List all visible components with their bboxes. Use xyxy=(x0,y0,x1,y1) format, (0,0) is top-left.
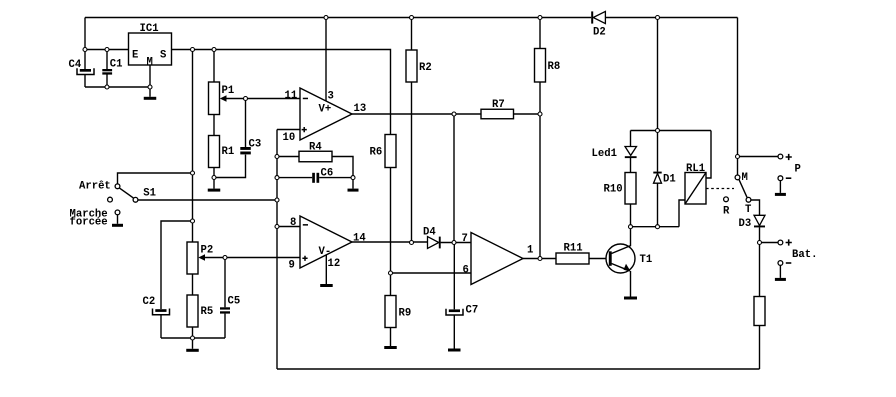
node: 13-row / feedback drop xyxy=(452,112,456,116)
node: P1 wiper / C3 xyxy=(244,97,248,101)
wire: dashed mechanical link RL1 to contact xyxy=(706,188,734,190)
T1 emitter lead xyxy=(630,271,632,297)
wire: R1 bottom lead xyxy=(213,168,215,178)
capacitor C3 xyxy=(240,147,251,150)
svg-text:R8: R8 xyxy=(548,61,561,73)
svg-text:forcée: forcée xyxy=(70,217,108,229)
wire: C5 bottom lead xyxy=(224,314,226,338)
node: S row / P1 top xyxy=(212,48,216,52)
node: U1C output / R8 drop xyxy=(538,257,542,261)
wire: op-amp U1A pin 3 supply stub xyxy=(325,18,327,102)
diode D3 xyxy=(754,215,765,225)
wire: C3 top lead from wiper node xyxy=(245,99,247,148)
svg-text:IC1: IC1 xyxy=(140,23,159,35)
wire: P2 wiper row to op-amp pin 9 xyxy=(204,257,301,259)
resistor R6 xyxy=(385,135,396,168)
svg-text:P: P xyxy=(795,164,801,176)
svg-text:R9: R9 xyxy=(399,308,412,320)
IC1 regulator box xyxy=(129,33,172,65)
wire: R11 to T1 base xyxy=(589,258,609,260)
node: ground row under R5 xyxy=(191,336,195,340)
node: pin 8 on riser xyxy=(275,225,279,229)
terminal Bat- xyxy=(778,261,783,266)
wire: top bus right corner down to relay contact M xyxy=(737,18,739,176)
wire: C6 row xyxy=(277,177,353,179)
wire: P+ terminal row xyxy=(738,156,779,158)
wire: U1A output 13 row to R7 xyxy=(352,113,481,115)
diode D2 xyxy=(593,11,605,23)
wire: pin 6 row xyxy=(391,272,472,274)
svg-text:7: 7 xyxy=(462,233,468,245)
wire: relay coil top lead from rail xyxy=(706,131,711,179)
wire: sense riser x=277 (pin10/R4/C6/S1/pin8 to bottom bus) xyxy=(276,130,278,370)
wire: ground row under C2/R5/C5 xyxy=(161,337,225,339)
wire: C5 top lead xyxy=(224,258,226,308)
wire: U1C output row to R11 xyxy=(523,258,556,260)
node: C1 top xyxy=(105,48,109,52)
node: IC1 M / ground rail xyxy=(148,85,152,89)
U1A inverting mark xyxy=(303,98,308,100)
wire: D1 bottom lead xyxy=(657,183,659,227)
T1 base bar xyxy=(609,251,612,265)
potentiometer P2 body xyxy=(187,242,198,274)
ground at Marche forcee xyxy=(117,215,119,224)
node: T1 collector / R10 xyxy=(629,225,633,229)
U1A non-inverting mark xyxy=(302,127,307,132)
RL1 diagonal xyxy=(685,173,706,205)
wire: bottom sense bus xyxy=(277,368,760,370)
resistor R9 xyxy=(385,296,396,328)
node: R4 left on riser xyxy=(275,155,279,159)
ground under R9 xyxy=(390,328,392,347)
resistor R8 xyxy=(535,49,546,83)
svg-text:R4: R4 xyxy=(309,142,322,154)
node: S1 wire on riser xyxy=(275,198,279,202)
op-amp U1A triangle xyxy=(300,88,352,140)
diode D1 xyxy=(653,172,661,174)
wire: C2 branch from P2 top node xyxy=(161,221,193,309)
svg-text:P1: P1 xyxy=(222,85,235,97)
svg-text:C4: C4 xyxy=(69,59,82,71)
resistor R11 xyxy=(556,253,589,264)
ground under C7 xyxy=(448,349,461,352)
wire: top supply bus xyxy=(85,17,738,19)
capacitor C6 xyxy=(312,173,315,183)
node: R6 / R9 / pin 6 xyxy=(389,271,393,275)
capacitor C7 (polarized) xyxy=(446,309,463,315)
wire: E input row (C4, C1, IC1 E pin) xyxy=(85,49,129,51)
node: E row / C4 xyxy=(83,48,87,52)
svg-text:C1: C1 xyxy=(110,59,123,71)
wire: R8 bottom to R7 node and down to comparator output xyxy=(539,82,541,259)
wire: C3 bottom lead to R1 bottom node xyxy=(214,155,246,178)
svg-text:V+: V+ xyxy=(319,104,332,116)
wire: IC1 M pin lead xyxy=(149,65,151,87)
svg-text:R: R xyxy=(723,206,730,218)
wire: vertical S-net branch x=192.5 down to P2 top xyxy=(192,50,194,243)
R1 bottom ground xyxy=(213,180,215,189)
svg-text:14: 14 xyxy=(353,233,366,245)
relay contact T xyxy=(746,197,751,202)
node: top bus / pin3 stub xyxy=(324,16,328,20)
svg-text:Led1: Led1 xyxy=(592,148,617,160)
node: top bus / D1 branch xyxy=(656,16,660,20)
resistor R7 xyxy=(481,109,514,119)
svg-text:C6: C6 xyxy=(321,168,334,180)
wire: S output row from IC1 to R6 top xyxy=(172,50,391,135)
capacitor C2 (polarized) xyxy=(153,309,170,315)
wire: R5 bottom lead xyxy=(192,327,194,338)
node: S row / S-net riser xyxy=(191,48,195,52)
svg-text:13: 13 xyxy=(354,103,367,115)
S1 Marche forcee contact xyxy=(115,210,120,215)
svg-text:M: M xyxy=(742,172,748,184)
wire: pin 8 lead xyxy=(277,226,300,228)
svg-text:D3: D3 xyxy=(739,218,752,230)
wire: U1B output 14 row to D4 anode xyxy=(352,241,428,243)
wire: pin 10 lead from x=277 riser xyxy=(277,129,300,131)
node: C1 bottom xyxy=(105,85,109,89)
wire: T1 collector row (R10, D1, relay coil) xyxy=(631,226,680,228)
svg-text:D4: D4 xyxy=(423,227,436,239)
svg-text:R7: R7 xyxy=(492,99,505,111)
resistor R5 xyxy=(187,295,198,327)
op-amp U1B triangle xyxy=(300,216,352,268)
node: pin 7 / D4 cathode / C7 xyxy=(452,241,456,245)
svg-text:R11: R11 xyxy=(564,243,583,255)
ground under R5/C2/C5 xyxy=(192,340,194,349)
capacitor C5 xyxy=(220,307,230,309)
node: top bus / R2 xyxy=(410,16,414,20)
U1B non-inverting mark xyxy=(302,256,307,261)
U1B pin 12 ground stub xyxy=(325,255,327,285)
terminal Bat+ xyxy=(778,240,783,245)
resistor R2 xyxy=(406,50,417,82)
svg-text:3: 3 xyxy=(328,91,334,103)
node: P+ row / contact M riser xyxy=(736,155,740,159)
node: D4 anode / R2 bottom xyxy=(410,241,414,245)
node: R7 / R8 junction xyxy=(538,112,542,116)
ground at P- xyxy=(779,181,781,193)
node: P2 wiper / C5 xyxy=(223,256,227,260)
svg-text:R5: R5 xyxy=(201,306,214,318)
wire: S1 common to sense riser xyxy=(136,199,278,201)
svg-text:10: 10 xyxy=(283,132,296,144)
node: Arret branch on S-net xyxy=(191,171,195,175)
wire: R4 right lead and corner to C6 node xyxy=(332,157,353,178)
wire: R6 vertical chain to R9 and pin 6 xyxy=(390,168,392,296)
wire: ground return rail under C4/C1 to IC1 M pin xyxy=(85,86,150,88)
resistor R10 xyxy=(625,173,636,205)
C7 bottom lead xyxy=(453,315,455,349)
S1 common contact and lever xyxy=(119,188,134,198)
wire: R8 top lead xyxy=(539,18,541,49)
potentiometer P1 body xyxy=(209,82,220,115)
svg-text:M: M xyxy=(147,57,153,69)
diode D4 xyxy=(428,237,439,249)
svg-text:S1: S1 xyxy=(143,188,156,200)
svg-text:Arrêt: Arrêt xyxy=(79,181,111,193)
svg-text:1: 1 xyxy=(527,245,533,257)
node: D3 / Bat+ row xyxy=(758,241,762,245)
ground at Bat- xyxy=(779,265,781,278)
C6/R4 right ground xyxy=(352,180,354,189)
IC1 M pin ground xyxy=(149,89,151,97)
T1 emitter line with arrow xyxy=(612,264,630,271)
node: top bus / R8 xyxy=(538,16,542,20)
wire: D4 cathode to pin 7 row into U1C xyxy=(441,242,471,244)
svg-text:R1: R1 xyxy=(222,146,235,158)
svg-text:R6: R6 xyxy=(370,147,383,159)
node: relay rail / D1 top xyxy=(656,129,660,133)
relay RL1 coil box xyxy=(685,173,706,205)
wire: Led1 to R10 xyxy=(630,158,632,173)
wire: P2 to R5 link xyxy=(192,274,194,295)
svg-text:12: 12 xyxy=(328,258,341,270)
wire: R10 bottom lead xyxy=(630,204,632,227)
wire: C1 leads xyxy=(106,50,108,88)
wire: D1 top lead xyxy=(657,131,659,172)
svg-text:C5: C5 xyxy=(228,296,241,308)
svg-text:C3: C3 xyxy=(249,139,262,151)
wire: C4 leads xyxy=(84,50,86,88)
series resistor (battery line) xyxy=(754,297,765,326)
T1 collector line xyxy=(612,227,631,254)
wire: R2 top lead xyxy=(411,18,413,51)
capacitor C4 (polarized) xyxy=(77,68,94,74)
wire: D1 branch from top bus xyxy=(657,18,659,131)
svg-text:C7: C7 xyxy=(466,305,479,317)
wire: R4 left lead xyxy=(277,156,299,158)
U1B inverting mark xyxy=(303,224,308,226)
wire: series resistor to bottom bus xyxy=(759,326,761,370)
svg-text:8: 8 xyxy=(290,217,296,229)
wire: battery sense drop to series resistor xyxy=(759,243,761,297)
svg-text:E: E xyxy=(132,50,138,62)
ground at U1B pin 12 xyxy=(320,284,333,287)
resistor R4 xyxy=(299,151,332,162)
svg-text:V-: V- xyxy=(319,246,332,258)
wire: D3 cathode to Bat+ node xyxy=(759,227,761,242)
wire: P1 top lead xyxy=(213,50,215,83)
wire: relay coil bottom-left lead xyxy=(679,200,685,227)
node: T1 collector / D1 xyxy=(656,225,660,229)
svg-text:11: 11 xyxy=(285,90,298,102)
wire: feedback drop from 13-row node to pin 7 node xyxy=(453,114,455,243)
terminal P- xyxy=(778,176,783,181)
svg-text:RL1: RL1 xyxy=(686,163,705,175)
relay contact lever M-T xyxy=(739,180,747,198)
switch S1: Arret contact xyxy=(115,184,120,189)
svg-text:9: 9 xyxy=(289,260,295,272)
svg-text:R10: R10 xyxy=(604,184,623,196)
wire: left vertical from top bus to E node xyxy=(84,18,86,50)
wire: R7 to R8 node xyxy=(514,113,541,115)
wire: P1 to R1 link xyxy=(213,115,215,136)
wire: C7 top lead xyxy=(453,243,455,310)
svg-text:D1: D1 xyxy=(663,174,676,186)
terminal P+ xyxy=(778,154,783,159)
resistor R1 xyxy=(209,136,220,168)
svg-text:T1: T1 xyxy=(640,254,653,266)
svg-text:D2: D2 xyxy=(593,27,606,39)
svg-text:R2: R2 xyxy=(419,62,432,74)
svg-text:T: T xyxy=(745,204,752,216)
relay contact M xyxy=(735,175,740,180)
S1 center-off contact xyxy=(108,197,113,202)
wire: Led1/D1/RL1 top rail xyxy=(631,130,712,132)
node: C2 branch / P2 top xyxy=(191,219,195,223)
wire: P1 wiper row to op-amp pin 11 xyxy=(226,98,301,100)
svg-text:Bat.: Bat. xyxy=(792,249,817,261)
LED Led1 xyxy=(625,147,637,156)
P1 wiper arrow xyxy=(220,95,227,102)
wire: C2 bottom lead xyxy=(160,315,162,338)
wire: Led1 top lead xyxy=(630,131,632,147)
transistor T1 xyxy=(606,244,635,273)
P2 wiper arrow xyxy=(198,254,205,261)
svg-text:S: S xyxy=(160,50,167,62)
wire: Bat+ terminal row xyxy=(760,242,779,244)
svg-text:P2: P2 xyxy=(201,245,214,257)
op-amp U1C triangle xyxy=(471,233,523,285)
node: R1/C3 ground junction xyxy=(212,176,216,180)
wire: T contact stub to D3 xyxy=(751,200,760,215)
svg-text:C2: C2 xyxy=(143,296,156,308)
capacitor C1 xyxy=(102,69,112,71)
node: R4/C6 right junction xyxy=(351,176,355,180)
relay contact R xyxy=(724,197,729,202)
wire: R2 bottom vertical to D4 anode node xyxy=(411,82,413,243)
node: C6 left on riser xyxy=(275,176,279,180)
wire: Arret branch from S-net xyxy=(118,173,193,184)
svg-text:6: 6 xyxy=(463,265,469,277)
ground at T1 emitter xyxy=(624,297,637,300)
